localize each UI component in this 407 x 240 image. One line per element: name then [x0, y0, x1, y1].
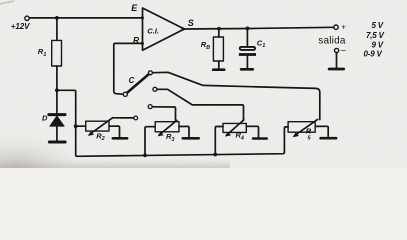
node R3 rail junction — [143, 154, 147, 158]
wire contact3 to R3 wiper — [152, 107, 175, 121]
terminal +12V — [25, 16, 29, 20]
contact 2 — [153, 87, 157, 91]
svg-text:+: + — [341, 22, 346, 31]
wire R3 left lead — [145, 127, 155, 156]
node R1 top junction — [55, 16, 59, 20]
contact 3 — [148, 105, 152, 109]
switch arm C — [127, 74, 148, 92]
switch pole — [123, 92, 127, 96]
resistor RB — [213, 37, 223, 61]
wire R4 left lead — [215, 127, 223, 155]
svg-text:5 V: 5 V — [372, 21, 384, 30]
ground (diode) — [49, 141, 65, 144]
capacitor C1 bottom plate — [239, 53, 256, 56]
wire top rail — [29, 17, 142, 19]
wire R5 right lead — [315, 126, 328, 137]
wire contact1 to R5 wiper — [153, 72, 320, 119]
terminal + salida — [334, 25, 338, 29]
ground (R3) — [183, 137, 199, 140]
wire contact4 to R2 wiper — [113, 117, 134, 119]
wire bottom rail — [77, 127, 288, 156]
wire output S rail — [184, 27, 333, 29]
resistor R1 — [52, 40, 62, 66]
contact 1 — [148, 71, 152, 75]
svg-text:D: D — [42, 114, 48, 123]
ground (C1) — [241, 68, 253, 71]
ground (R4) — [253, 137, 267, 140]
wire R3 right lead — [179, 126, 189, 137]
wire diode bottom lead — [56, 126, 58, 141]
svg-text:9 V: 9 V — [372, 41, 384, 50]
node R input — [141, 42, 144, 45]
svg-text:+12V: +12V — [11, 22, 30, 31]
wire R2 right lead — [109, 126, 120, 137]
potentiometer R3 — [155, 122, 179, 132]
svg-text:C: C — [129, 76, 135, 85]
ground (salida -) — [329, 68, 344, 71]
svg-text:0-9 V: 0-9 V — [364, 50, 383, 59]
contact 4 — [134, 116, 138, 120]
capacitor C1 top plate — [240, 47, 255, 50]
wire contact2 to R4 wiper — [157, 89, 243, 120]
wire RB top lead — [218, 29, 220, 37]
svg-text:E: E — [131, 3, 138, 13]
svg-text:R: R — [306, 127, 312, 136]
node R2 left tap — [74, 124, 78, 128]
wire R input to switch pole — [114, 43, 143, 94]
ground (R5) — [321, 137, 337, 140]
wire - terminal lead — [336, 53, 338, 68]
terminal - salida — [335, 48, 339, 52]
node RB junction — [217, 27, 221, 31]
wire R4 right lead — [246, 126, 258, 137]
ground (R2) — [113, 137, 127, 140]
node C1 junction — [246, 27, 250, 31]
wire RB bottom lead — [218, 61, 220, 68]
wire C1 bottom lead — [246, 56, 248, 68]
svg-text:C.I.: C.I. — [147, 26, 159, 35]
ground (RB) — [213, 68, 224, 71]
node S apex blob — [182, 27, 188, 31]
svg-text:S: S — [188, 18, 194, 28]
node R1/D junction — [55, 88, 59, 92]
potentiometer R4 — [223, 123, 246, 132]
svg-text:7,5 V: 7,5 V — [366, 31, 385, 40]
wire R2 left lead — [76, 125, 86, 127]
svg-text:R: R — [133, 35, 140, 45]
wire junction to bottom-left rail — [57, 90, 77, 156]
op-amp U1 C.I. — [143, 8, 185, 50]
node R4 rail junction — [213, 153, 217, 157]
wire R1 bottom lead — [56, 66, 58, 113]
diode D cathode bar — [49, 113, 65, 116]
potentiometer R2 — [86, 121, 109, 131]
diode D — [50, 116, 64, 126]
potentiometer R5 — [288, 122, 315, 133]
node E input — [141, 16, 144, 19]
svg-text:–: – — [341, 44, 346, 54]
wire R1 top lead — [56, 18, 58, 41]
wire C1 top lead — [246, 28, 248, 46]
